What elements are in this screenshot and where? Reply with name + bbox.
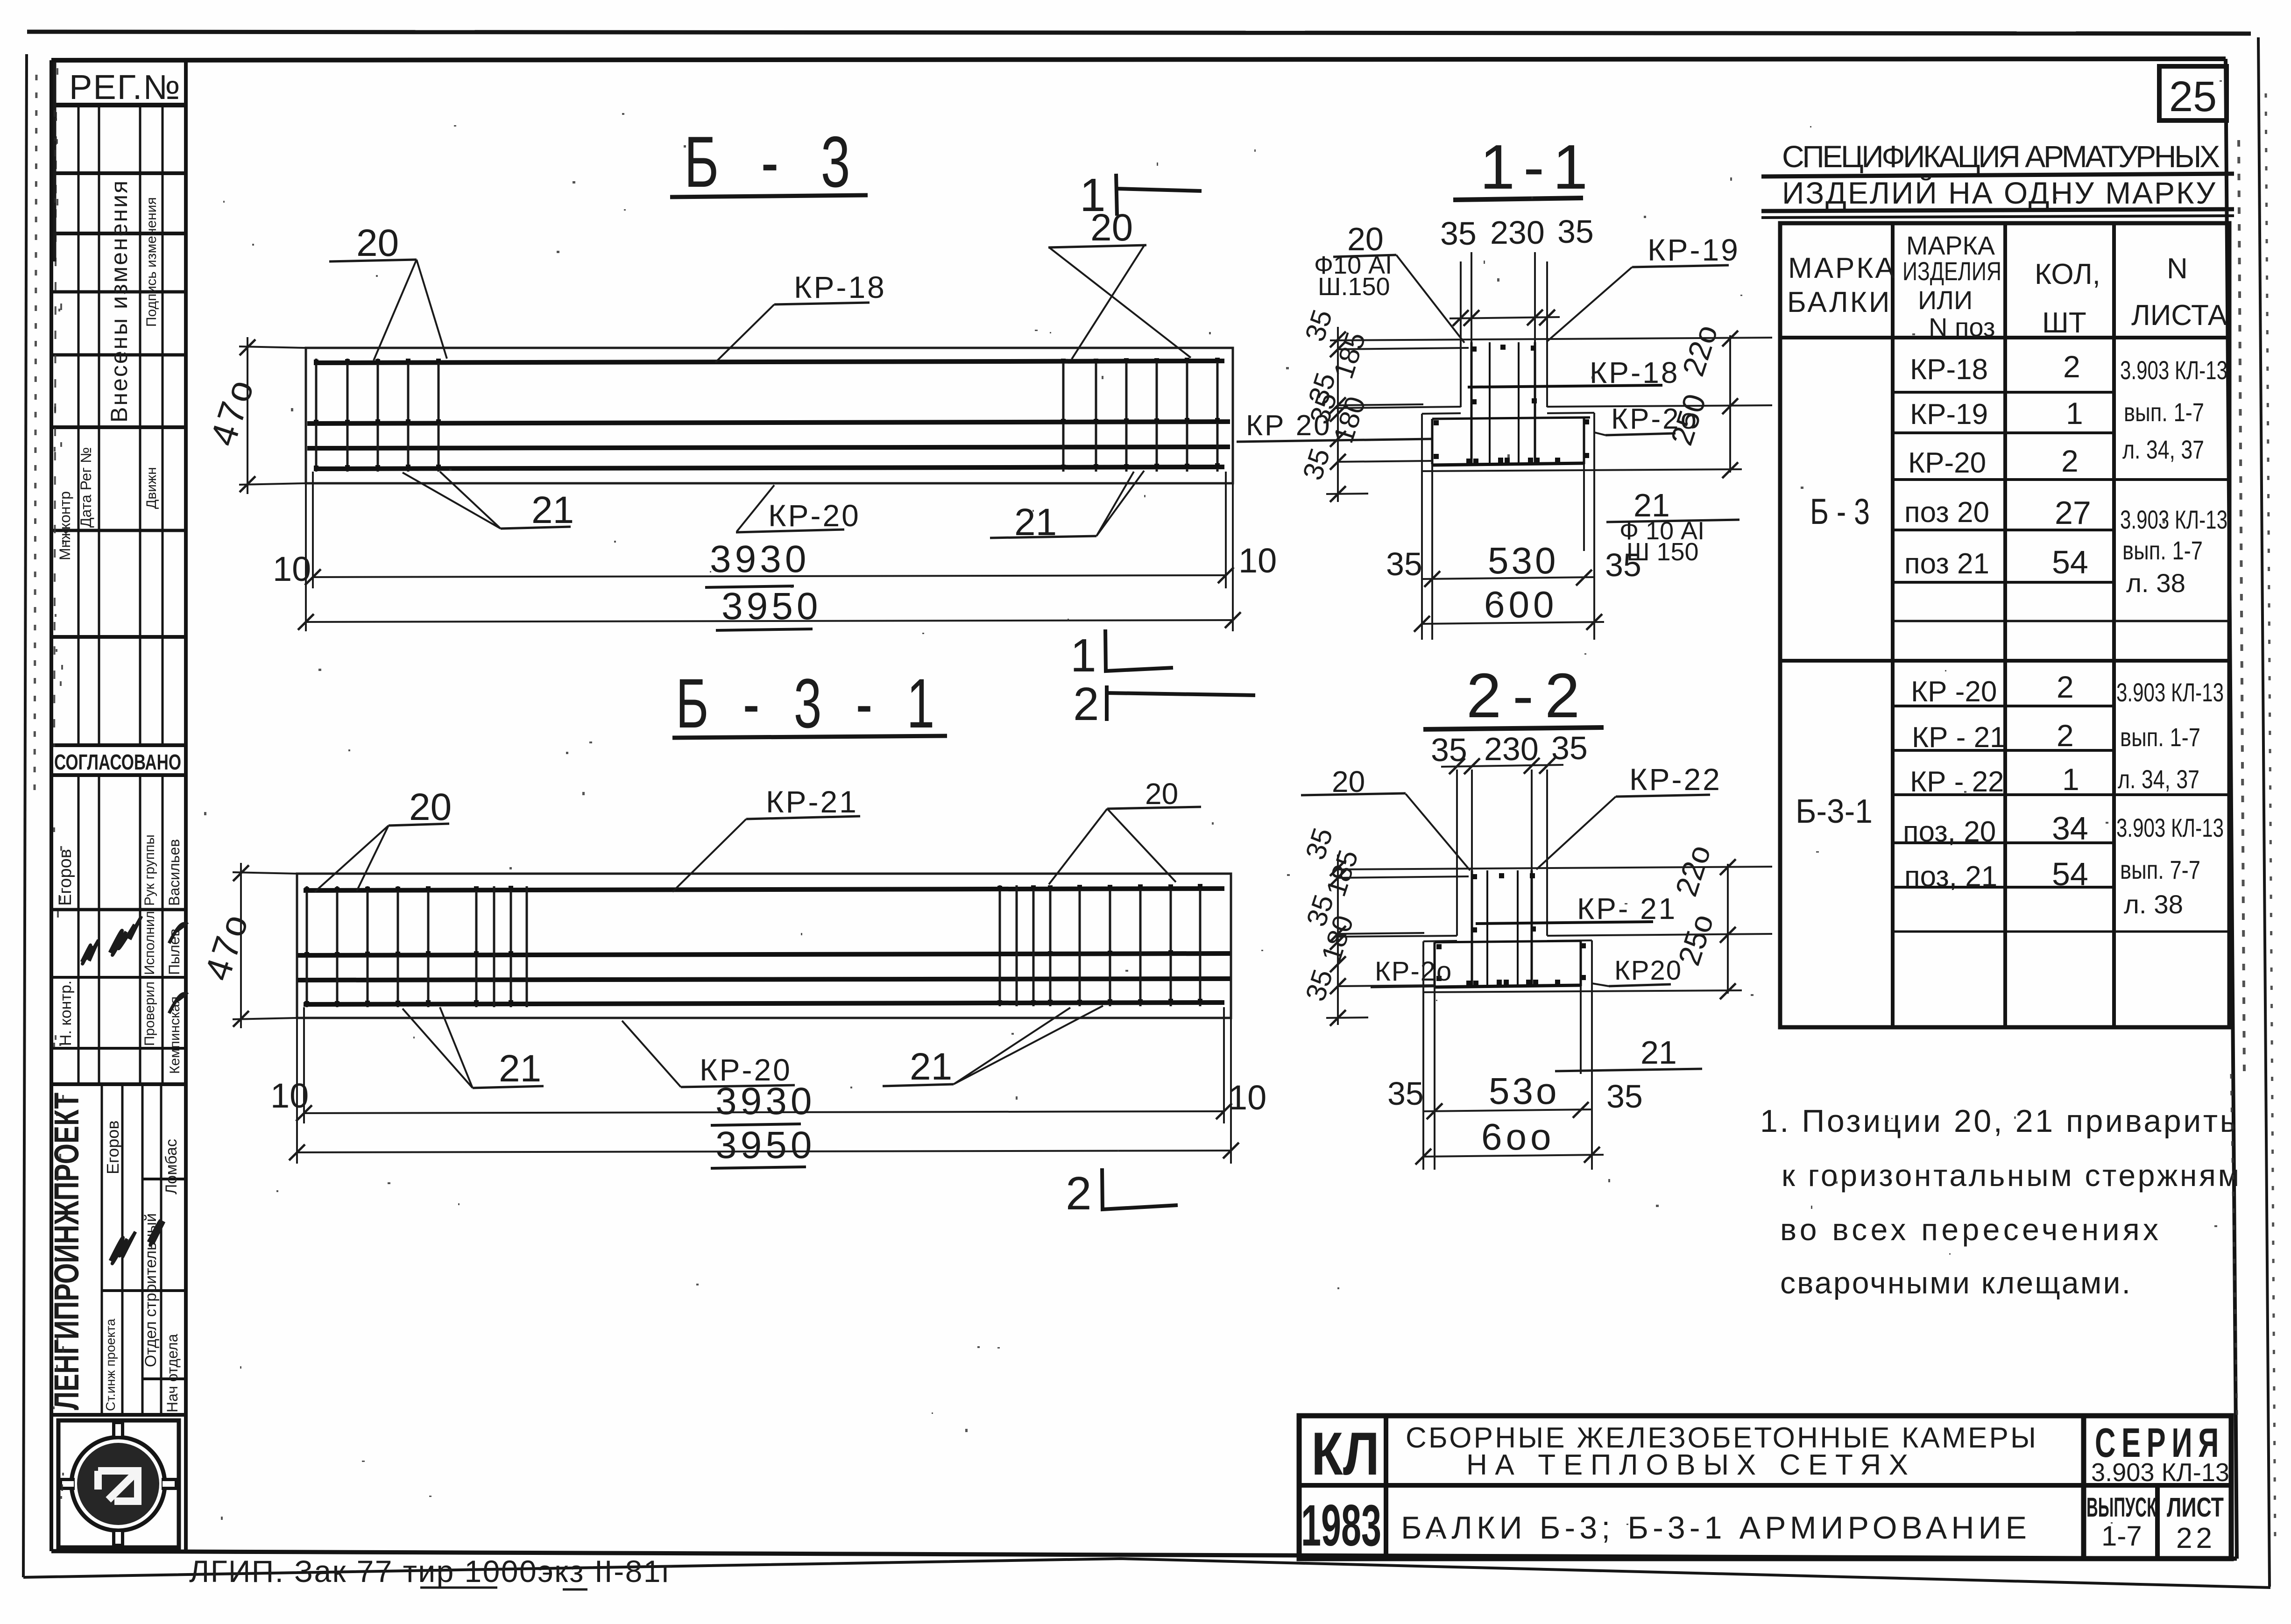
svg-text:22: 22 bbox=[2176, 1522, 2216, 1554]
svg-text:Нач отдела: Нач отдела bbox=[164, 1334, 181, 1412]
svg-text:л. 34, 37: л. 34, 37 bbox=[2122, 435, 2204, 464]
svg-text:КР-2о: КР-2о bbox=[1611, 403, 1698, 435]
svg-text:СПЕЦИФИКАЦИЯ АРМАТУРНЫХ: СПЕЦИФИКАЦИЯ АРМАТУРНЫХ bbox=[1782, 139, 2226, 174]
svg-text:N поз: N поз bbox=[1929, 312, 1995, 342]
svg-text:вып. 1-7: вып. 1-7 bbox=[2120, 722, 2200, 752]
svg-text:20: 20 bbox=[1090, 206, 1133, 249]
svg-text:3.903 КЛ-13: 3.903 КЛ-13 bbox=[2091, 1458, 2229, 1487]
svg-text:Б - 3 - 1: Б - 3 - 1 bbox=[676, 664, 945, 742]
svg-text:54: 54 bbox=[2052, 856, 2088, 892]
svg-text:35: 35 bbox=[1551, 730, 1588, 766]
svg-text:3950: 3950 bbox=[715, 1124, 815, 1166]
svg-text:КР - 21: КР - 21 bbox=[1912, 721, 2006, 754]
svg-text:вып. 7-7: вып. 7-7 bbox=[2120, 855, 2200, 884]
svg-text:Мнжконтр: Мнжконтр bbox=[57, 491, 73, 560]
svg-text:БАЛКИ Б-3; Б-3-1 АРМИРОВАНИЕ: БАЛКИ Б-3; Б-3-1 АРМИРОВАНИЕ bbox=[1401, 1510, 2031, 1546]
svg-text:34: 34 bbox=[2052, 810, 2088, 847]
svg-text:МАРКА: МАРКА bbox=[1906, 231, 1995, 260]
svg-text:КР-18: КР-18 bbox=[794, 270, 886, 304]
svg-text:КЛ: КЛ bbox=[1311, 1419, 1379, 1488]
svg-text:Проверил: Проверил bbox=[142, 981, 157, 1046]
svg-text:РЕГ.№: РЕГ.№ bbox=[69, 68, 181, 106]
svg-text:1-1: 1-1 bbox=[1480, 132, 1596, 202]
svg-text:1: 1 bbox=[2066, 396, 2083, 431]
svg-text:КР -20: КР -20 bbox=[1911, 676, 1997, 708]
svg-text:Отдел строительный: Отдел строительный bbox=[142, 1213, 160, 1367]
svg-text:N: N bbox=[2167, 253, 2188, 285]
svg-text:ИЗДЕЛИЯ: ИЗДЕЛИЯ bbox=[1902, 256, 2001, 286]
svg-text:35: 35 bbox=[1440, 215, 1477, 252]
svg-text:КР-18: КР-18 bbox=[1590, 356, 1679, 389]
svg-text:Ш.150: Ш.150 bbox=[1318, 273, 1390, 301]
svg-text:ЛИСТА: ЛИСТА bbox=[2131, 299, 2227, 332]
svg-text:53о: 53о bbox=[1489, 1070, 1559, 1112]
svg-text:ЛГИП. Зак 77 тир 1000экз II-81: ЛГИП. Зак 77 тир 1000экз II-81г bbox=[189, 1554, 673, 1589]
svg-text:10: 10 bbox=[273, 550, 311, 588]
svg-text:35: 35 bbox=[1386, 546, 1422, 582]
svg-text:КР20: КР20 bbox=[1614, 955, 1682, 986]
svg-text:Ломбас: Ломбас bbox=[163, 1139, 180, 1194]
svg-text:10: 10 bbox=[1228, 1078, 1266, 1117]
svg-text:230: 230 bbox=[1490, 214, 1545, 251]
svg-text:к горизонтальным стержням: к горизонтальным стержням bbox=[1782, 1158, 2239, 1193]
svg-text:Егоров: Егоров bbox=[56, 849, 75, 906]
svg-text:вып. 1-7: вып. 1-7 bbox=[2122, 536, 2203, 565]
svg-text:21: 21 bbox=[531, 489, 574, 531]
svg-text:530: 530 bbox=[1488, 540, 1558, 581]
svg-text:3.903 КЛ-13: 3.903 КЛ-13 bbox=[2116, 813, 2224, 842]
svg-text:2: 2 bbox=[1066, 1167, 1092, 1220]
svg-text:1-7: 1-7 bbox=[2101, 1520, 2142, 1552]
svg-text:ВЫПУСК: ВЫПУСК bbox=[2086, 1492, 2157, 1523]
svg-text:поз, 21: поз, 21 bbox=[1904, 861, 1997, 893]
svg-text:Н. контр.: Н. контр. bbox=[57, 981, 75, 1046]
svg-text:Рук группы: Рук группы bbox=[142, 834, 157, 906]
svg-text:2: 2 bbox=[2057, 718, 2074, 753]
svg-text:600: 600 bbox=[1484, 584, 1557, 625]
svg-text:35: 35 bbox=[1387, 1075, 1424, 1112]
svg-text:1983: 1983 bbox=[1301, 1493, 1381, 1558]
svg-text:вып. 1-7: вып. 1-7 bbox=[2124, 397, 2204, 427]
svg-text:л. 38: л. 38 bbox=[2124, 890, 2183, 919]
svg-text:Ст.инж проекта: Ст.инж проекта bbox=[103, 1319, 118, 1411]
svg-text:35: 35 bbox=[1606, 1078, 1643, 1115]
svg-text:КОЛ,: КОЛ, bbox=[2035, 258, 2100, 290]
svg-text:2: 2 bbox=[2061, 444, 2079, 478]
svg-text:БАЛКИ: БАЛКИ bbox=[1787, 286, 1891, 318]
svg-text:1: 1 bbox=[1070, 629, 1096, 682]
svg-text:Б - 3: Б - 3 bbox=[1810, 491, 1870, 532]
svg-text:2: 2 bbox=[2057, 670, 2074, 704]
svg-text:СОГЛАСОВАНО: СОГЛАСОВАНО bbox=[54, 750, 181, 774]
svg-text:Ш 150: Ш 150 bbox=[1626, 538, 1699, 566]
svg-text:КР-21: КР-21 bbox=[766, 784, 858, 819]
svg-text:КР-19: КР-19 bbox=[1910, 398, 1988, 431]
svg-text:Кемпинская: Кемпинская bbox=[167, 996, 183, 1074]
svg-text:ИЗДЕЛИЙ НА ОДНУ МАРКУ: ИЗДЕЛИЙ НА ОДНУ МАРКУ bbox=[1782, 175, 2221, 210]
svg-text:поз 20: поз 20 bbox=[1904, 496, 1989, 529]
svg-text:230: 230 bbox=[1484, 731, 1539, 767]
svg-text:Подпись изменения: Подпись изменения bbox=[144, 197, 159, 327]
svg-text:Васильев: Васильев bbox=[166, 839, 183, 906]
svg-text:НА ТЕПЛОВЫХ СЕТЯХ: НА ТЕПЛОВЫХ СЕТЯХ bbox=[1466, 1449, 1915, 1481]
svg-text:КР-20: КР-20 bbox=[768, 498, 861, 533]
svg-text:2: 2 bbox=[2063, 349, 2080, 384]
svg-text:21: 21 bbox=[499, 1047, 541, 1090]
svg-text:ИЛИ: ИЛИ bbox=[1918, 285, 1973, 315]
svg-text:ЛИСТ: ЛИСТ bbox=[2167, 1492, 2224, 1523]
svg-text:Исполнил: Исполнил bbox=[142, 911, 157, 975]
svg-text:л. 34, 37: л. 34, 37 bbox=[2118, 764, 2199, 794]
svg-text:21: 21 bbox=[1640, 1034, 1677, 1071]
svg-text:КР-20: КР-20 bbox=[1908, 447, 1986, 479]
svg-text:10: 10 bbox=[270, 1076, 309, 1115]
svg-text:25: 25 bbox=[2169, 73, 2217, 120]
svg-text:54: 54 bbox=[2052, 544, 2088, 580]
svg-text:ЛЕНГИПРОИНЖПРОЕКТ: ЛЕНГИПРОИНЖПРОЕКТ bbox=[47, 1093, 86, 1410]
svg-text:20: 20 bbox=[356, 222, 399, 264]
svg-text:3930: 3930 bbox=[715, 1080, 815, 1123]
svg-text:КР-19: КР-19 bbox=[1648, 233, 1740, 267]
svg-text:20: 20 bbox=[409, 786, 452, 828]
svg-text:1. Позиции 20, 21 приварить: 1. Позиции 20, 21 приварить bbox=[1760, 1103, 2236, 1139]
svg-text:КР 20: КР 20 bbox=[1246, 410, 1332, 442]
svg-text:Б-3-1: Б-3-1 bbox=[1796, 793, 1873, 830]
svg-text:3.903 КЛ-13: 3.903 КЛ-13 bbox=[2120, 355, 2227, 385]
svg-text:поз, 20: поз, 20 bbox=[1903, 816, 1996, 848]
svg-text:1: 1 bbox=[2062, 762, 2079, 797]
svg-text:2: 2 bbox=[1073, 678, 1099, 730]
svg-text:КР-2о: КР-2о bbox=[1375, 956, 1452, 987]
svg-text:Б - 3: Б - 3 bbox=[684, 121, 864, 202]
svg-text:3.903 КЛ-13: 3.903 КЛ-13 bbox=[2116, 678, 2224, 707]
svg-text:20: 20 bbox=[1145, 777, 1178, 811]
svg-text:Внесены изменения: Внесены изменения bbox=[106, 179, 132, 423]
svg-text:ШТ: ШТ bbox=[2042, 307, 2086, 339]
svg-text:3930: 3930 bbox=[710, 538, 810, 580]
svg-text:КР - 22: КР - 22 bbox=[1910, 766, 2004, 798]
svg-text:Дата Рег №: Дата Рег № bbox=[78, 447, 94, 528]
svg-text:КР- 21: КР- 21 bbox=[1577, 892, 1677, 925]
svg-text:2-2: 2-2 bbox=[1466, 660, 1591, 731]
svg-text:КР-18: КР-18 bbox=[1910, 353, 1988, 386]
svg-text:3.903 КЛ-13: 3.903 КЛ-13 bbox=[2120, 505, 2227, 534]
svg-text:27: 27 bbox=[2055, 494, 2091, 531]
svg-text:6оо: 6оо bbox=[1481, 1116, 1555, 1158]
svg-text:Движн: Движн bbox=[144, 467, 159, 509]
svg-text:21: 21 bbox=[910, 1045, 952, 1088]
svg-text:3950: 3950 bbox=[721, 585, 821, 628]
svg-text:л. 38: л. 38 bbox=[2126, 568, 2185, 598]
svg-text:МАРКА: МАРКА bbox=[1788, 252, 1896, 284]
svg-text:35: 35 bbox=[1557, 213, 1594, 250]
svg-text:КР-22: КР-22 bbox=[1629, 762, 1722, 797]
svg-text:10: 10 bbox=[1238, 541, 1277, 580]
svg-text:Егоров: Егоров bbox=[103, 1120, 122, 1174]
svg-text:поз 21: поз 21 bbox=[1904, 548, 1989, 580]
